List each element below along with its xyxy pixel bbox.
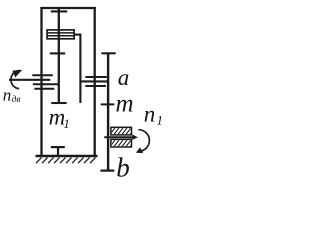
svg-text:n: n: [3, 86, 12, 105]
svg-text:1: 1: [157, 113, 164, 128]
svg-text:m: m: [116, 90, 134, 117]
svg-text:1: 1: [63, 116, 70, 131]
svg-text:a: a: [118, 65, 130, 90]
svg-text:b: b: [116, 153, 130, 183]
svg-text:дв: дв: [12, 94, 21, 105]
svg-text:n: n: [144, 101, 156, 126]
